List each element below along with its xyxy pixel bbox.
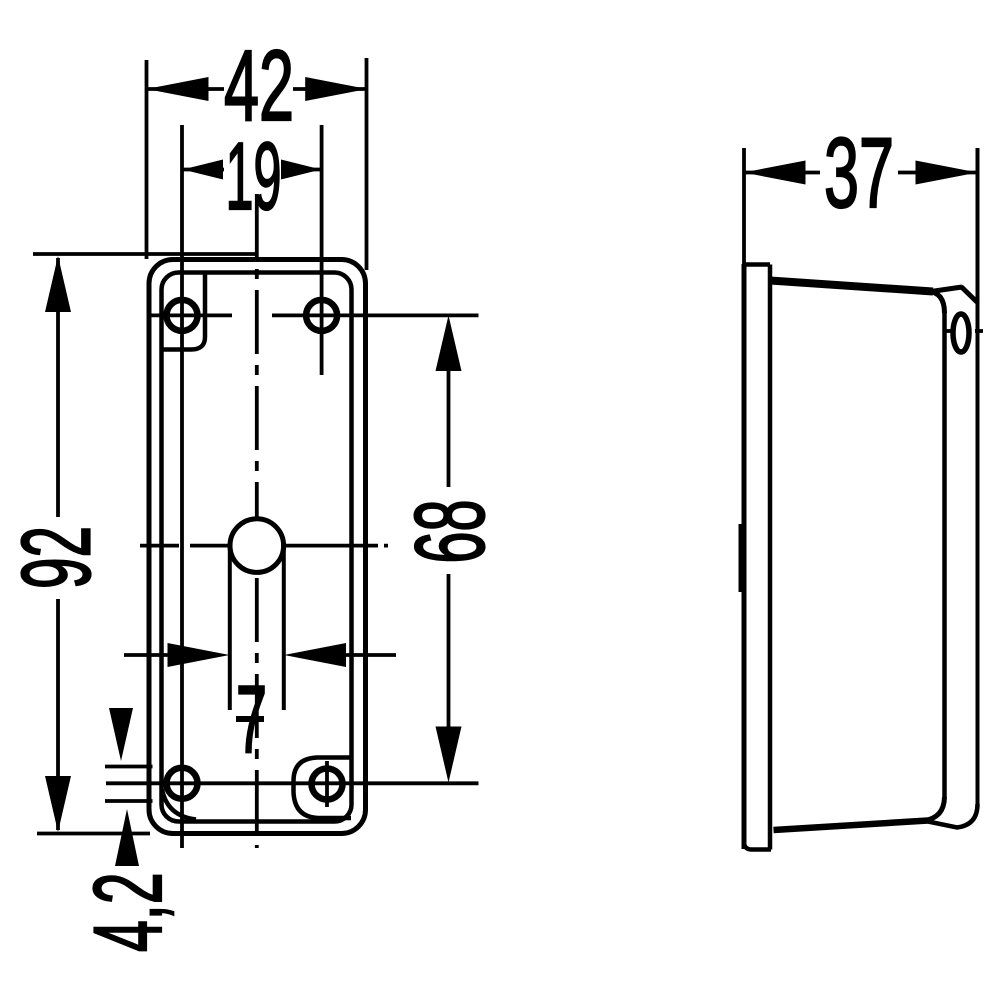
svg-text:19: 19	[226, 123, 282, 230]
svg-text:92: 92	[2, 526, 111, 589]
svg-text:68: 68	[395, 500, 505, 564]
svg-text:37: 37	[824, 117, 894, 228]
svg-text:4,2: 4,2	[75, 873, 182, 953]
